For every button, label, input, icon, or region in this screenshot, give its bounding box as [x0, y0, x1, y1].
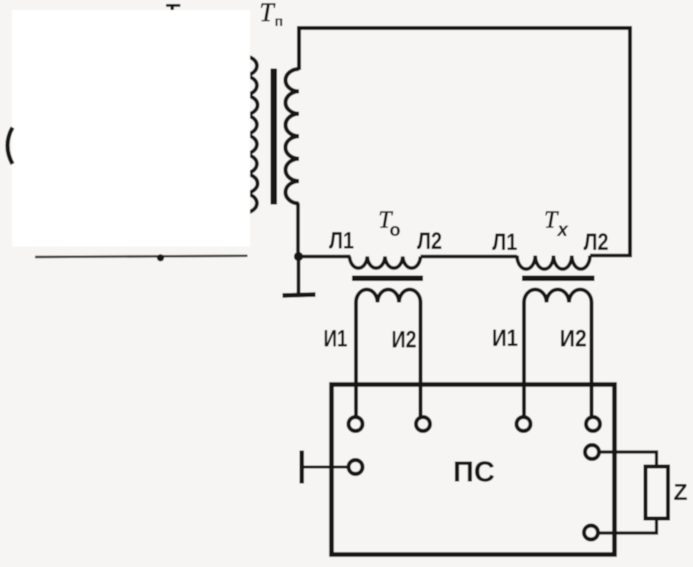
terminal 1 (И1 То) [349, 417, 363, 431]
terminal 2 (И2 То) [416, 417, 430, 431]
terminal 3 (И1 Тх) [517, 417, 531, 431]
svg-text:Л1: Л1 [492, 229, 517, 256]
wire: upper right terminal to Z [599, 452, 657, 467]
generator circle arc (left edge, mostly hidden) [8, 128, 13, 165]
terminal: left ground terminal [349, 460, 363, 474]
svg-text:И2: И2 [392, 327, 417, 354]
transformer Тх secondary winding И1-И2 [524, 290, 592, 418]
terminal 4 (И2 Тх) [586, 417, 600, 431]
wire: left terminal to ground bar [304, 466, 349, 469]
svg-text:Л2: Л2 [584, 229, 609, 256]
svg-text:Л2: Л2 [417, 228, 442, 255]
ground bar (left of ПС) [300, 451, 304, 484]
svg-text:И2: И2 [560, 326, 587, 353]
transformer Тх core [522, 276, 595, 282]
transformer То secondary winding И1-И2 [356, 290, 421, 418]
wire: loop top [297, 26, 630, 30]
svg-text:о: о [390, 220, 401, 240]
transformer Tп primary winding (partially hidden by white box) [244, 56, 258, 213]
wire (bottom of hidden circuit) [35, 256, 248, 257]
ground (main circuit) [297, 257, 301, 294]
terminal: right lower (to Z) [584, 526, 598, 540]
transformer То primary winding Л1-Л2 [350, 257, 421, 269]
wire: Tп secondary top to loop corner [297, 26, 301, 70]
wire: Тх Л2 to loop right corner [590, 254, 632, 258]
svg-text:И1: И1 [492, 325, 518, 352]
wire: junction to То Л1 [299, 255, 351, 259]
box ПС [332, 385, 615, 555]
node: junction dot at main ground [294, 252, 303, 261]
terminal: right upper (to Z) [585, 445, 599, 459]
svg-text:ПС: ПС [453, 457, 495, 489]
load Z (burden impedance) [646, 467, 669, 519]
svg-text:Л1: Л1 [329, 227, 354, 254]
wire: loop right side [628, 26, 632, 257]
junction dot on hidden wire [157, 254, 164, 261]
transformer Тх primary winding Л1-Л2 [517, 256, 590, 270]
white redaction box [12, 10, 250, 247]
transformer Tп secondary winding [285, 69, 299, 204]
transformer Tп core [271, 69, 278, 205]
wire: Tп secondary bottom to junction [296, 203, 300, 257]
wire: Z to lower right terminal [598, 519, 657, 534]
svg-text:T: T [259, 0, 275, 27]
svg-text:И1: И1 [324, 326, 348, 353]
svg-text:п: п [275, 13, 283, 29]
svg-text:Z: Z [674, 479, 688, 505]
wire: То Л2 to Тх Л1 [421, 255, 518, 259]
svg-text:х: х [556, 220, 569, 241]
transformer То core [352, 276, 423, 282]
partial label Т (hidden transformer, cut by white box) [166, 4, 180, 10]
